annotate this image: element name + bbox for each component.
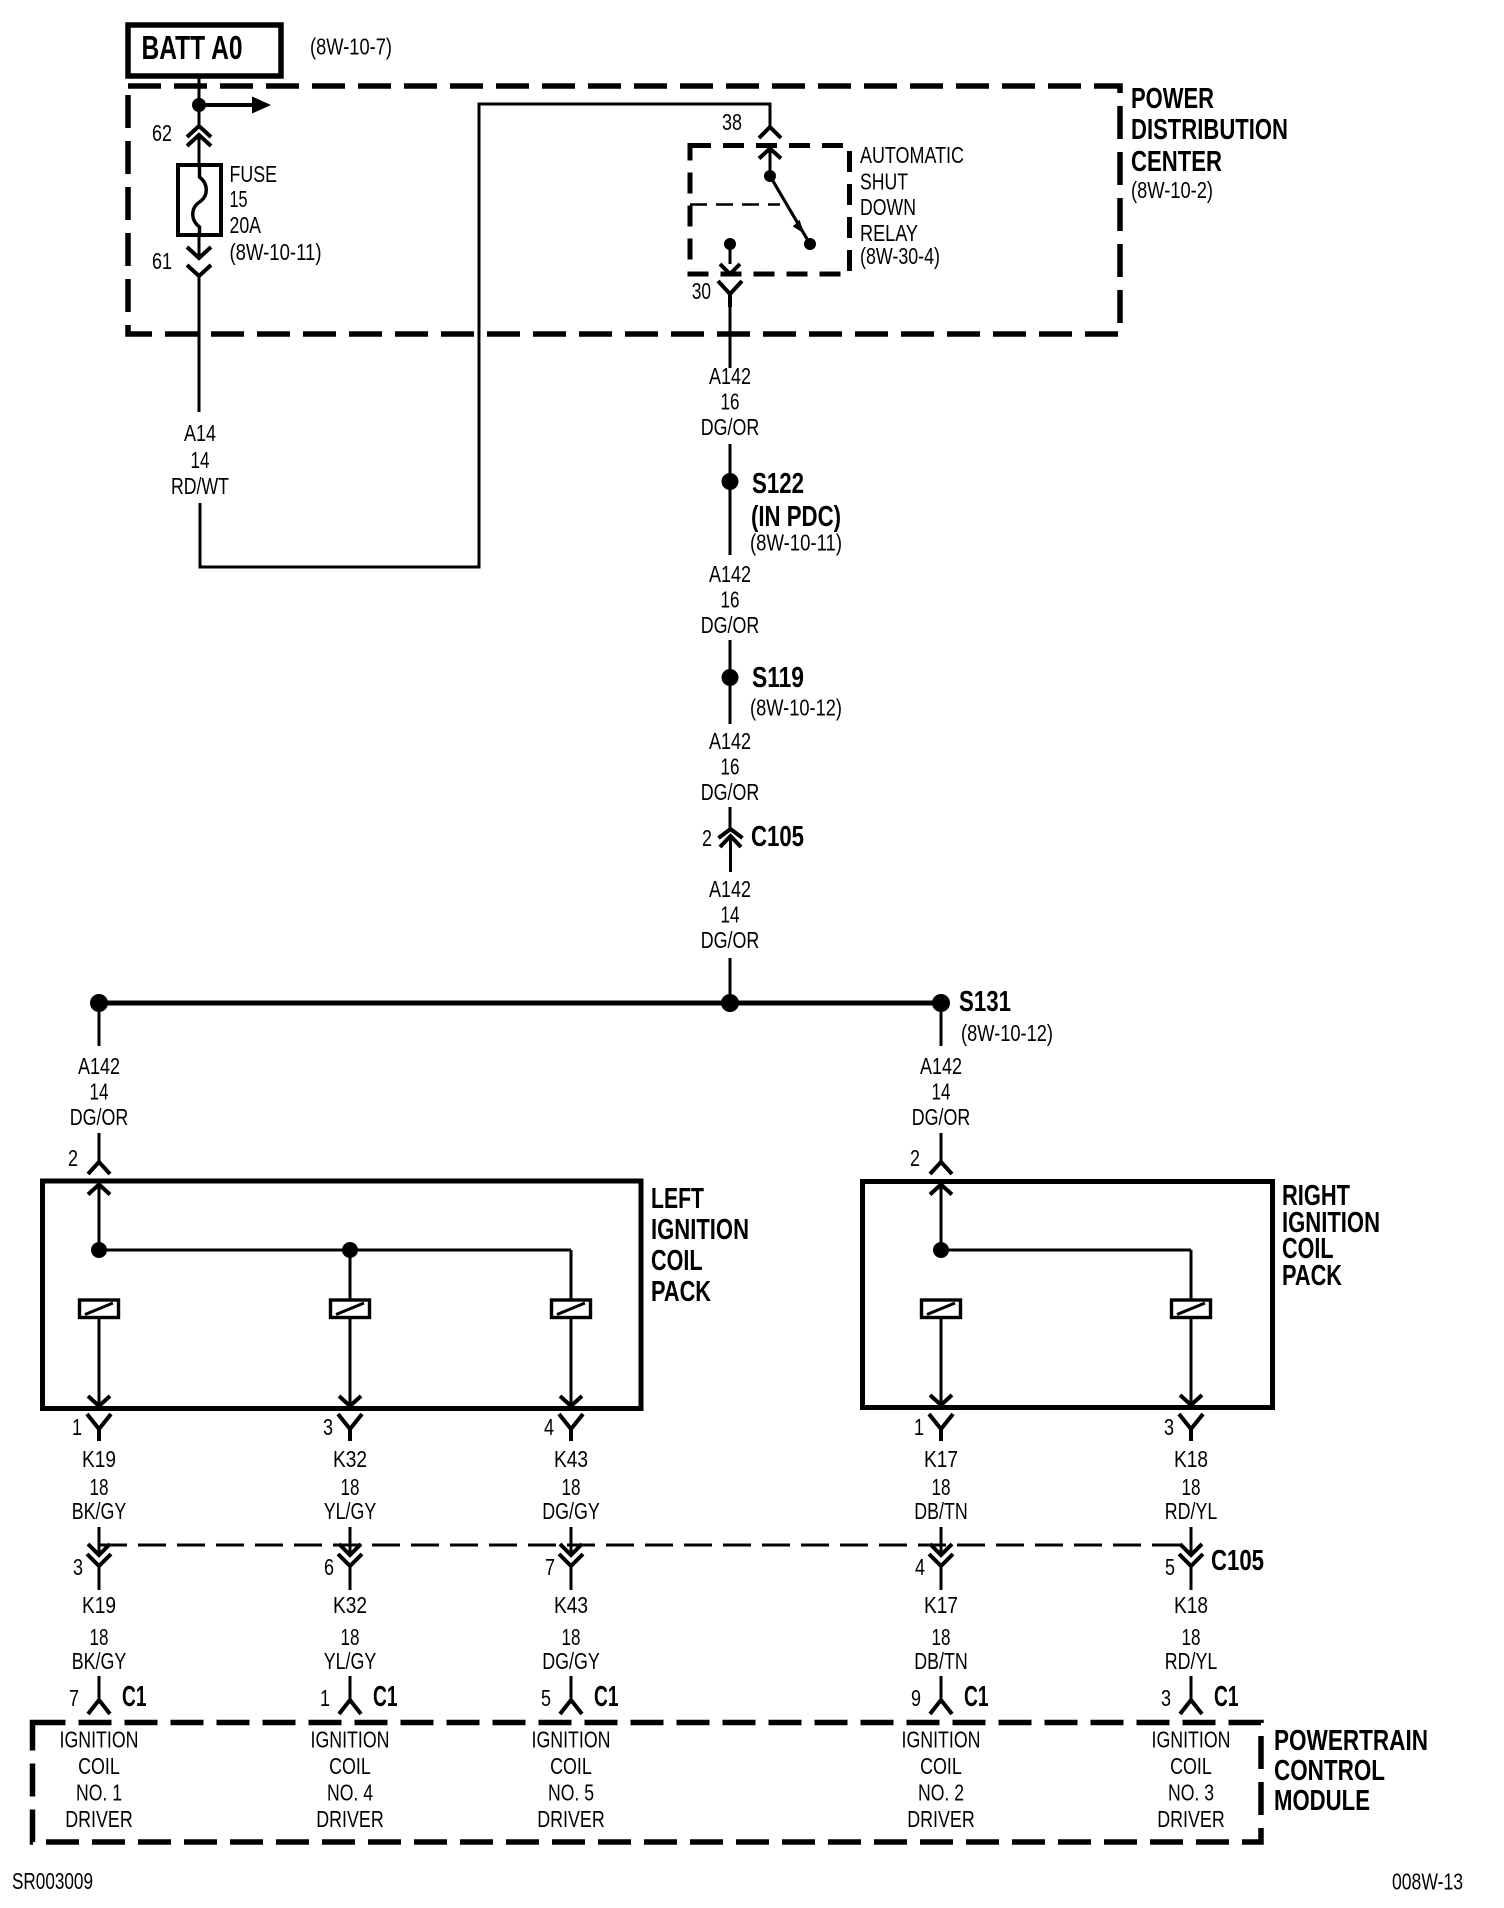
svg-text:COIL: COIL	[1170, 1753, 1212, 1779]
svg-text:DRIVER: DRIVER	[1157, 1806, 1225, 1832]
connector pin 38 (inverted Y)	[759, 127, 781, 138]
svg-text:(8W-10-11): (8W-10-11)	[230, 239, 322, 265]
pin 3 label at C1	[1161, 1685, 1171, 1711]
pin 38 label	[722, 109, 742, 135]
connector C1 label (K32)	[373, 1681, 398, 1713]
wire into C105 pin 7	[570, 1527, 573, 1555]
wire segment to bus	[729, 958, 732, 998]
connector C1 label (K17)	[964, 1681, 989, 1713]
wire label K19 18 BK/GY (upper)	[72, 1446, 127, 1524]
relay switch blade	[770, 176, 810, 244]
svg-text:7: 7	[545, 1554, 555, 1580]
svg-text:A142: A142	[78, 1053, 120, 1079]
svg-text:IGNITION: IGNITION	[1152, 1727, 1231, 1753]
relay pin 30 wire and arrow	[720, 244, 740, 274]
PCM driver label (NO. 2)	[902, 1727, 981, 1833]
coil primary no.3	[1172, 1300, 1211, 1318]
pin 1 label at C1	[320, 1685, 330, 1711]
svg-text:RD/WT: RD/WT	[171, 473, 229, 499]
svg-text:2: 2	[910, 1145, 920, 1171]
connector pin 30 (Y)	[718, 281, 742, 307]
PCM label	[1274, 1725, 1428, 1817]
svg-text:18: 18	[90, 1474, 109, 1500]
svg-text:18: 18	[932, 1624, 951, 1650]
powertrain control module box (dashed)	[33, 1723, 1262, 1843]
svg-text:14: 14	[932, 1079, 951, 1105]
svg-text:C1: C1	[373, 1681, 398, 1713]
right pack entry arrow	[930, 1185, 952, 1251]
battery feed box BATT A0	[128, 25, 281, 76]
svg-text:K18: K18	[1174, 1592, 1208, 1618]
connector chevrons pin 61	[187, 247, 211, 276]
wire label A142 16 DG/OR (1)	[701, 363, 760, 440]
svg-text:C1: C1	[964, 1681, 989, 1713]
pin 30 label	[692, 278, 711, 304]
svg-text:4: 4	[544, 1414, 554, 1440]
svg-text:14: 14	[721, 902, 740, 928]
connector pin 2 left pack (inverted Y)	[88, 1162, 110, 1174]
coil primary no.4	[331, 1300, 370, 1318]
svg-text:A14: A14	[184, 420, 216, 446]
wire into C105 pin 4	[940, 1527, 943, 1555]
svg-text:FUSE: FUSE	[230, 161, 278, 187]
svg-text:7: 7	[69, 1685, 79, 1711]
wire label K19 18 BK/GY (lower)	[72, 1592, 127, 1674]
relay switch contact node	[804, 238, 816, 250]
left pack junction node 2	[342, 1242, 358, 1258]
svg-text:RD/YL: RD/YL	[1165, 1498, 1218, 1524]
connector C1 label (K19)	[122, 1681, 147, 1713]
PCM driver label (NO. 4)	[311, 1727, 390, 1833]
svg-text:POWER: POWER	[1131, 83, 1214, 115]
svg-text:3: 3	[1161, 1685, 1171, 1711]
right ignition coil pack box	[863, 1182, 1273, 1408]
PCM driver label (NO. 3)	[1152, 1727, 1231, 1833]
svg-text:(8W-10-7): (8W-10-7)	[310, 34, 392, 60]
left pack junction node 1	[91, 1242, 107, 1258]
splice S122	[722, 473, 739, 490]
wire label A14 14 RD/WT	[171, 420, 229, 499]
svg-text:(8W-30-4): (8W-30-4)	[860, 243, 940, 269]
connector C1 label (K18)	[1214, 1681, 1239, 1713]
wire into C105 pin 3	[98, 1527, 101, 1555]
right branch wire + label A142 14 DG/OR	[912, 1012, 971, 1162]
connector C1 pin 1 symbol	[339, 1676, 361, 1714]
svg-text:1: 1	[320, 1685, 330, 1711]
wire label K18 18 RD/YL (lower)	[1165, 1592, 1218, 1674]
left branch wire + label A142 14 DG/OR	[70, 1012, 129, 1162]
pack output pin 3 (K32)	[323, 1414, 362, 1441]
svg-text:18: 18	[341, 1624, 360, 1650]
svg-text:MODULE: MODULE	[1274, 1785, 1370, 1817]
pin 3 label at C105	[73, 1554, 83, 1580]
pin 2 label left pack	[68, 1145, 78, 1171]
svg-text:18: 18	[562, 1474, 581, 1500]
connector C1 pin 5 symbol	[560, 1676, 582, 1714]
pin 62 label	[152, 120, 172, 146]
relay pin 30 node	[724, 238, 736, 250]
svg-text:6: 6	[324, 1554, 334, 1580]
coil primary no.5	[552, 1300, 591, 1318]
svg-text:IGNITION: IGNITION	[651, 1214, 749, 1246]
svg-text:DOWN: DOWN	[860, 194, 916, 220]
wire label K17 18 DB/TN (lower)	[914, 1592, 968, 1674]
svg-text:NO. 1: NO. 1	[76, 1780, 122, 1806]
connector C1 pin 9 symbol	[930, 1676, 952, 1714]
sheet id 008W-13	[1392, 1869, 1463, 1895]
svg-text:3: 3	[1164, 1414, 1174, 1440]
connector C1 pin 7 symbol	[88, 1676, 110, 1714]
svg-text:DG/OR: DG/OR	[701, 414, 760, 440]
svg-text:COIL: COIL	[329, 1753, 371, 1779]
wire into C105 pin 5	[1190, 1527, 1193, 1555]
power distribution center label	[1131, 83, 1288, 203]
svg-text:K32: K32	[333, 1446, 367, 1472]
bus wire	[99, 1001, 941, 1006]
svg-text:POWERTRAIN: POWERTRAIN	[1274, 1725, 1428, 1757]
svg-text:DG/GY: DG/GY	[542, 1498, 600, 1524]
svg-text:DRIVER: DRIVER	[907, 1806, 975, 1832]
svg-text:K43: K43	[554, 1592, 588, 1618]
wire label K18 18 RD/YL (upper)	[1165, 1446, 1218, 1524]
svg-text:C105: C105	[1211, 1545, 1264, 1577]
wire relay 30 to S122	[729, 307, 732, 368]
wire S119 to label	[729, 686, 732, 724]
svg-text:NO. 3: NO. 3	[1168, 1780, 1214, 1806]
wire fuse output A14 upper	[198, 235, 201, 412]
wire label K43 18 DG/GY (lower)	[542, 1592, 600, 1674]
svg-text:4: 4	[915, 1554, 925, 1580]
right pack branch wire	[1190, 1250, 1193, 1300]
svg-text:COIL: COIL	[651, 1245, 703, 1277]
svg-text:K19: K19	[82, 1592, 116, 1618]
pack output pin 4 (K43)	[544, 1414, 583, 1441]
relay pin 38 arrow into box	[759, 149, 781, 172]
relay internal divider (dashed)	[690, 203, 780, 206]
svg-text:SR003009: SR003009	[12, 1868, 93, 1894]
svg-text:9: 9	[911, 1685, 921, 1711]
left pack branch wires	[350, 1250, 571, 1300]
connector C1 pin 3 symbol	[1180, 1676, 1202, 1714]
svg-text:30: 30	[692, 278, 711, 304]
connector C105 pin 7 symbol	[559, 1544, 583, 1590]
svg-text:A142: A142	[709, 363, 751, 389]
pin 61 label	[152, 248, 172, 274]
svg-text:15: 15	[230, 186, 248, 212]
svg-text:14: 14	[191, 447, 210, 473]
arrow feed continues right	[206, 97, 271, 114]
svg-text:C1: C1	[1214, 1681, 1239, 1713]
connector pin 2 right pack (inverted Y)	[930, 1162, 952, 1174]
svg-text:62: 62	[152, 120, 172, 146]
ASD relay box (dashed)	[690, 146, 850, 275]
svg-text:YL/GY: YL/GY	[324, 1498, 377, 1524]
wire into C105 pin 6	[349, 1527, 352, 1555]
svg-text:16: 16	[721, 389, 740, 415]
svg-text:DG/OR: DG/OR	[70, 1104, 129, 1130]
left pack entry arrow	[88, 1185, 110, 1251]
right pack junction node	[933, 1242, 949, 1258]
left ignition coil pack box	[43, 1181, 642, 1409]
svg-text:2: 2	[68, 1145, 78, 1171]
svg-text:NO. 5: NO. 5	[548, 1780, 594, 1806]
svg-text:BK/GY: BK/GY	[72, 1498, 127, 1524]
svg-text:DRIVER: DRIVER	[65, 1806, 133, 1832]
pin 7 label at C105	[545, 1554, 555, 1580]
svg-text:IGNITION: IGNITION	[532, 1727, 611, 1753]
svg-text:DRIVER: DRIVER	[537, 1806, 605, 1832]
svg-text:RD/YL: RD/YL	[1165, 1648, 1218, 1674]
svg-text:(8W-10-12): (8W-10-12)	[750, 695, 842, 721]
svg-text:18: 18	[1182, 1624, 1201, 1650]
svg-text:DG/OR: DG/OR	[912, 1104, 971, 1130]
svg-text:A142: A142	[709, 728, 751, 754]
right pack label	[1282, 1180, 1380, 1292]
wire label K32 18 YL/GY (lower)	[324, 1592, 377, 1674]
svg-text:A142: A142	[709, 561, 751, 587]
pin 6 label at C105	[324, 1554, 334, 1580]
svg-text:A142: A142	[709, 876, 751, 902]
wire label K32 18 YL/GY (upper)	[324, 1446, 377, 1524]
svg-text:PACK: PACK	[651, 1276, 711, 1308]
svg-text:C1: C1	[122, 1681, 147, 1713]
svg-text:LEFT: LEFT	[651, 1183, 704, 1215]
splice S119	[722, 669, 739, 686]
svg-text:(8W-10-12): (8W-10-12)	[961, 1020, 1053, 1046]
connector C105 pin 4 symbol	[929, 1544, 953, 1590]
pin 2 label at C105	[702, 825, 712, 851]
svg-text:NO. 4: NO. 4	[327, 1780, 373, 1806]
svg-text:COIL: COIL	[920, 1753, 962, 1779]
svg-text:38: 38	[722, 109, 742, 135]
svg-text:5: 5	[541, 1685, 551, 1711]
wire S122 to label	[729, 490, 732, 555]
PCM driver label (NO. 5)	[532, 1727, 611, 1833]
connector C105 pin 3 symbol	[87, 1544, 111, 1590]
svg-text:18: 18	[341, 1474, 360, 1500]
svg-text:008W-13: 008W-13	[1392, 1869, 1463, 1895]
svg-text:14: 14	[90, 1079, 109, 1105]
left pack bus	[99, 1249, 571, 1252]
svg-text:3: 3	[323, 1414, 333, 1440]
connector C105 pin 5 symbol	[1179, 1544, 1203, 1590]
svg-text:DRIVER: DRIVER	[316, 1806, 384, 1832]
pin 9 label at C1	[911, 1685, 921, 1711]
relay label AUTOMATIC SHUT DOWN RELAY	[860, 142, 964, 269]
svg-text:18: 18	[90, 1624, 109, 1650]
svg-text:BATT A0: BATT A0	[142, 29, 243, 66]
svg-text:CONTROL: CONTROL	[1274, 1755, 1385, 1787]
junction node on battery feed	[192, 98, 206, 112]
svg-text:IGNITION: IGNITION	[311, 1727, 390, 1753]
svg-text:IGNITION: IGNITION	[60, 1727, 139, 1753]
svg-text:2: 2	[702, 825, 712, 851]
svg-text:(8W-10-2): (8W-10-2)	[1131, 177, 1213, 203]
svg-text:DG/OR: DG/OR	[701, 927, 760, 953]
svg-text:K43: K43	[554, 1446, 588, 1472]
svg-text:16: 16	[721, 587, 740, 613]
bus junction left	[90, 994, 108, 1012]
wire label A142 16 DG/OR (3)	[701, 728, 760, 805]
svg-text:1: 1	[72, 1414, 82, 1440]
coil primary no.1	[80, 1300, 119, 1318]
relay switch common node	[764, 170, 776, 182]
connector C105 label (mid)	[751, 821, 804, 853]
svg-text:NO. 2: NO. 2	[918, 1780, 964, 1806]
connector C105 pin 6 symbol	[338, 1544, 362, 1590]
pin 5 label at C1	[541, 1685, 551, 1711]
splice S131	[932, 994, 950, 1012]
svg-text:K18: K18	[1174, 1446, 1208, 1472]
pack output pin 1 (K19)	[72, 1414, 111, 1441]
svg-text:K17: K17	[924, 1446, 958, 1472]
right pack bus	[941, 1249, 1191, 1252]
svg-text:DG/OR: DG/OR	[701, 779, 760, 805]
svg-text:IGNITION: IGNITION	[902, 1727, 981, 1753]
wire label A142 14 DG/OR (4)	[701, 876, 760, 953]
left pack label	[651, 1183, 749, 1308]
svg-text:20A: 20A	[230, 212, 262, 238]
wire battery to fuse	[198, 76, 201, 165]
svg-text:(8W-10-11): (8W-10-11)	[750, 530, 842, 556]
pin 2 label right pack	[910, 1145, 920, 1171]
svg-text:K17: K17	[924, 1592, 958, 1618]
reference (8W-10-7)	[310, 34, 392, 60]
left pack exit wires	[88, 1318, 582, 1407]
svg-text:A142: A142	[920, 1053, 962, 1079]
svg-text:K19: K19	[82, 1446, 116, 1472]
svg-text:CENTER: CENTER	[1131, 146, 1222, 178]
PCM driver label (NO. 1)	[60, 1727, 139, 1833]
pack output pin 3 (K18)	[1164, 1414, 1203, 1441]
splice S122 label	[750, 468, 842, 556]
svg-text:SHUT: SHUT	[860, 169, 908, 195]
splice S131 label	[959, 986, 1053, 1046]
power distribution center box (dashed)	[128, 86, 1120, 334]
svg-text:C105: C105	[751, 821, 804, 853]
svg-text:C1: C1	[594, 1681, 619, 1713]
diagram id SR003009	[12, 1868, 93, 1894]
wire label K17 18 DB/TN (upper)	[914, 1446, 968, 1524]
svg-text:S119: S119	[752, 662, 804, 694]
svg-text:DB/TN: DB/TN	[914, 1648, 968, 1674]
pin 7 label at C1	[69, 1685, 79, 1711]
svg-text:AUTOMATIC: AUTOMATIC	[860, 142, 964, 168]
svg-text:3: 3	[73, 1554, 83, 1580]
wire segment to S122	[729, 444, 732, 473]
svg-text:YL/GY: YL/GY	[324, 1648, 377, 1674]
fuse label FUSE 15 20A (8W-10-11)	[230, 161, 322, 265]
svg-text:COIL: COIL	[78, 1753, 120, 1779]
connector C1 label (K43)	[594, 1681, 619, 1713]
svg-text:61: 61	[152, 248, 172, 274]
wire segment to S119	[729, 640, 732, 669]
connector C105 dashed line	[99, 1544, 1191, 1547]
svg-text:DISTRIBUTION: DISTRIBUTION	[1131, 114, 1288, 146]
svg-text:DG/GY: DG/GY	[542, 1648, 600, 1674]
pin 5 label at C105	[1165, 1554, 1175, 1580]
pin 4 label at C105	[915, 1554, 925, 1580]
wire segment to C105	[729, 807, 732, 829]
svg-text:S131: S131	[959, 986, 1011, 1018]
svg-text:(IN PDC): (IN PDC)	[751, 501, 841, 533]
svg-text:16: 16	[721, 754, 740, 780]
bus junction middle	[721, 994, 739, 1012]
svg-text:5: 5	[1165, 1554, 1175, 1580]
svg-text:18: 18	[932, 1474, 951, 1500]
wire label K43 18 DG/GY (upper)	[542, 1446, 600, 1524]
fuse F15 symbol	[178, 165, 221, 235]
connector chevrons pin 62	[187, 126, 211, 146]
svg-text:K32: K32	[333, 1592, 367, 1618]
svg-text:DB/TN: DB/TN	[914, 1498, 968, 1524]
svg-text:18: 18	[1182, 1474, 1201, 1500]
wire label A142 16 DG/OR (2)	[701, 561, 760, 638]
svg-text:DG/OR: DG/OR	[701, 612, 760, 638]
connector C105 label (row)	[1211, 1545, 1264, 1577]
pack output pin 1 (K17)	[914, 1414, 953, 1441]
wire A14 lower run to relay	[200, 104, 770, 567]
coil primary no.2	[922, 1300, 961, 1318]
right pack exit wires	[930, 1318, 1202, 1406]
splice S119 label	[750, 662, 842, 721]
svg-text:1: 1	[914, 1414, 924, 1440]
svg-text:S122: S122	[752, 468, 804, 500]
connector C105 pin 2 symbol	[719, 829, 743, 872]
svg-text:BK/GY: BK/GY	[72, 1648, 127, 1674]
svg-text:18: 18	[562, 1624, 581, 1650]
svg-text:PACK: PACK	[1282, 1260, 1342, 1292]
svg-text:COIL: COIL	[550, 1753, 592, 1779]
